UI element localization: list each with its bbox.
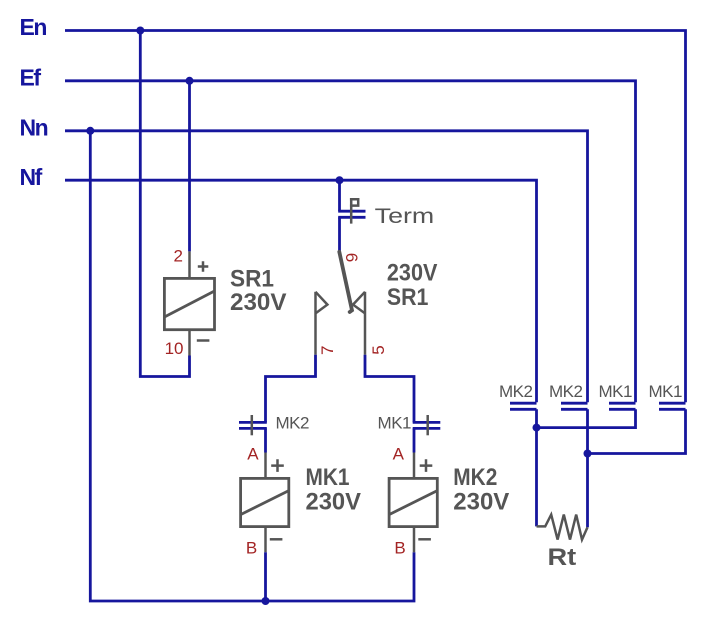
contact MK1 right 4 plates	[659, 403, 686, 409]
contact MK2 right 1 plates	[510, 403, 537, 409]
wire Nf drop to Term switch	[338, 180, 341, 211]
polarity minus SR1	[197, 339, 210, 342]
svg-text:MK2: MK2	[276, 414, 310, 433]
wire Ef rail to right drop	[65, 81, 636, 402]
svg-text:Nn: Nn	[20, 115, 48, 141]
relay coil SR1 diagonal	[164, 291, 214, 317]
svg-text:B: B	[394, 539, 405, 558]
svg-text:Ef: Ef	[20, 65, 42, 91]
switch Term thermal actuator	[350, 199, 358, 223]
svg-text:230V: 230V	[230, 289, 287, 316]
wire En drop to SR1 pin 10	[140, 31, 189, 377]
wire contact 2 to contact 4 link	[588, 409, 686, 453]
relay coil MK1 diagonal	[241, 491, 289, 515]
contact MK2 right 2 plates	[561, 403, 588, 409]
coil MK2 pin A lead	[413, 453, 416, 479]
junction node Rt right	[584, 450, 592, 458]
svg-text:7: 7	[318, 346, 337, 355]
svg-text:10: 10	[165, 339, 184, 358]
polarity minus MK2	[418, 538, 431, 541]
wire contact MK2 to coil MK1 pin A	[264, 428, 267, 452]
junction Ef x SR1 wire	[186, 77, 194, 85]
relay coil SR1 body	[164, 278, 214, 329]
contact MK1 right 3 plates	[609, 403, 636, 409]
contact MK2 plates	[239, 422, 267, 428]
wire contact 1 to contact 3 link	[537, 409, 636, 427]
svg-text:MK1: MK1	[306, 464, 350, 491]
relay coil MK2 body	[389, 478, 437, 526]
switch SR1 contact pin 7 arrowhead	[316, 292, 328, 314]
svg-text:Term: Term	[375, 205, 435, 228]
wire En rail to right drop	[65, 31, 686, 403]
junction En x SR1 wire	[136, 27, 144, 35]
wire coil MK1 B to bottom rail	[264, 552, 267, 601]
junction node Rt left	[533, 424, 541, 432]
resistor Rt	[537, 515, 588, 540]
relay coil MK1 body	[241, 478, 289, 526]
wire Term to SR1 switch common	[338, 217, 341, 252]
switch SR1 blade pin 6	[339, 252, 352, 312]
svg-text:A: A	[393, 445, 405, 464]
switch SR1 pin 5 lead	[364, 292, 367, 355]
svg-text:En: En	[20, 14, 47, 40]
svg-text:A: A	[247, 445, 259, 464]
svg-text:SR1: SR1	[387, 284, 429, 311]
wire down to Rt left	[535, 428, 538, 527]
wire Nf rail to right drop	[65, 180, 537, 402]
svg-text:230V: 230V	[453, 489, 509, 516]
wire Nn rail to right drop	[65, 131, 588, 402]
svg-text:MK1: MK1	[599, 382, 633, 401]
svg-text:MK1: MK1	[649, 382, 683, 401]
wire contact MK1 to coil MK2 pin A	[413, 428, 416, 452]
coil MK1 pin A lead	[264, 453, 267, 479]
relay coil SR1 pin 2 lead	[188, 251, 191, 278]
svg-text:MK2: MK2	[453, 464, 497, 491]
svg-text:MK2: MK2	[499, 382, 533, 401]
svg-text:MK2: MK2	[549, 382, 583, 401]
relay coil SR1 pin 10 lead	[188, 330, 191, 356]
switch Term upper plate	[338, 210, 365, 213]
polarity plus SR1	[198, 261, 209, 272]
polarity minus MK1	[270, 538, 283, 541]
polarity plus MK1	[271, 459, 284, 472]
relay coil MK2 diagonal	[389, 491, 437, 515]
junction bottom rail	[262, 597, 270, 605]
svg-text:Rt: Rt	[548, 544, 577, 571]
coil MK1 pin B lead	[264, 527, 267, 553]
svg-text:6: 6	[342, 253, 361, 262]
svg-text:2: 2	[174, 247, 183, 266]
wire pin 5 to contact MK1	[365, 355, 414, 423]
wire Nn drop to bottom rail to MK2 coil B	[90, 131, 414, 601]
wire Ef drop to SR1 pin 2	[188, 81, 191, 252]
svg-text:Nf: Nf	[20, 164, 43, 190]
wire pin 7 to contact MK2	[266, 355, 316, 423]
contact MK1 actuator	[426, 415, 429, 435]
polarity plus MK2	[420, 459, 433, 472]
contact MK2 actuator	[251, 415, 254, 435]
svg-text:230V: 230V	[306, 489, 362, 516]
svg-text:230V: 230V	[387, 259, 438, 286]
switch SR1 pin 7 lead	[314, 292, 317, 355]
svg-text:MK1: MK1	[378, 414, 412, 433]
contact MK1 plates	[413, 422, 441, 428]
junction Nn drop	[86, 127, 94, 135]
wire down to Rt right	[586, 454, 589, 528]
switch Term lower plate	[338, 216, 365, 219]
svg-text:5: 5	[369, 345, 388, 354]
svg-text:B: B	[246, 539, 257, 558]
coil MK2 pin B lead	[413, 527, 416, 553]
switch SR1 contact pin 5 arrowhead	[353, 292, 365, 314]
junction Nf drop	[336, 176, 344, 184]
